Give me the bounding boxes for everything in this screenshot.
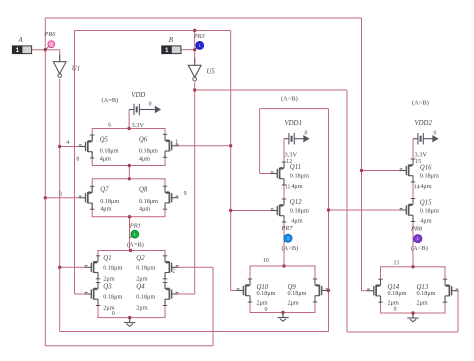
svg-text:1: 1 [50,43,52,47]
svg-text:8: 8 [76,157,79,163]
svg-text:4μm: 4μm [139,156,150,163]
svg-text:0.18μm: 0.18μm [139,148,158,155]
svg-text:0.18μm: 0.18μm [420,173,439,180]
svg-text:(A=B): (A=B) [102,97,119,104]
svg-text:10: 10 [263,258,269,264]
svg-text:U1: U1 [72,65,80,72]
svg-text:0.18μm: 0.18μm [288,290,307,297]
svg-text:PR1: PR1 [129,223,141,230]
svg-text:PR8: PR8 [410,226,423,233]
svg-text:Q2: Q2 [136,255,145,262]
svg-text:0.18μm: 0.18μm [420,208,439,215]
svg-text:(A<B): (A<B) [411,245,428,252]
svg-text:3.3V: 3.3V [285,152,298,159]
svg-text:0.18μm: 0.18μm [103,294,122,301]
svg-text:11: 11 [285,184,291,190]
svg-text:4μm: 4μm [100,205,111,212]
svg-text:0: 0 [305,131,308,137]
svg-text:14: 14 [414,184,420,190]
svg-text:VDD1: VDD1 [285,120,302,127]
svg-text:0.18μm: 0.18μm [257,290,276,297]
svg-text:Q15: Q15 [420,200,432,207]
svg-text:4μm: 4μm [291,218,302,225]
svg-text:Q8: Q8 [139,186,148,193]
svg-text:2μm: 2μm [417,300,428,307]
svg-text:4μm: 4μm [420,183,431,190]
svg-text:4μm: 4μm [139,205,150,212]
svg-text:0: 0 [394,307,397,313]
svg-text:1: 1 [287,237,289,241]
svg-text:13: 13 [394,261,400,267]
svg-text:0.18μm: 0.18μm [388,290,407,297]
svg-text:0.18μm: 0.18μm [103,264,122,271]
svg-text:2μm: 2μm [388,300,399,307]
svg-text:Q3: Q3 [103,283,112,290]
svg-text:Q7: Q7 [100,186,109,193]
svg-text:1: 1 [16,47,20,54]
svg-text:(A>B): (A>B) [282,245,299,252]
svg-text:3: 3 [59,191,62,197]
svg-text:0.18μm: 0.18μm [136,294,155,301]
svg-text:9: 9 [184,191,187,197]
svg-text:(A>B): (A>B) [281,96,298,103]
svg-text:U5: U5 [207,68,216,75]
svg-text:Q1: Q1 [103,255,111,262]
svg-text:2: 2 [172,269,175,275]
svg-text:3.3V: 3.3V [415,152,428,159]
svg-text:Q16: Q16 [420,165,432,172]
svg-text:2μm: 2μm [257,300,268,307]
svg-text:VDD: VDD [131,92,145,99]
svg-text:6: 6 [108,123,111,129]
svg-text:0: 0 [434,131,437,137]
svg-text:0.18μm: 0.18μm [100,198,119,205]
svg-text:2μm: 2μm [136,305,147,312]
svg-text:0.18μm: 0.18μm [139,198,158,205]
svg-text:VDD2: VDD2 [415,120,433,127]
svg-text:(A<B): (A<B) [412,100,429,107]
svg-text:2μm: 2μm [288,300,299,307]
svg-text:(A=B): (A=B) [127,241,144,248]
svg-text:1: 1 [417,237,419,241]
svg-text:0: 0 [265,307,268,313]
svg-text:2μm: 2μm [103,275,114,282]
svg-text:3.3V: 3.3V [132,122,145,129]
svg-text:12: 12 [286,159,292,165]
svg-text:A: A [18,37,24,44]
svg-text:Q6: Q6 [139,137,148,144]
svg-text:4μm: 4μm [100,156,111,163]
svg-text:4: 4 [66,140,69,146]
svg-text:B: B [169,37,173,44]
svg-text:4μm: 4μm [420,218,431,225]
svg-text:Q4: Q4 [136,283,145,290]
svg-text:PR7: PR7 [281,225,294,232]
svg-text:1: 1 [199,44,201,48]
svg-text:1: 1 [134,233,136,237]
svg-text:0.18μm: 0.18μm [290,208,309,215]
svg-text:1: 1 [165,47,169,54]
svg-text:0.18μm: 0.18μm [136,264,155,271]
svg-text:Q12: Q12 [290,199,302,206]
svg-text:0.18μm: 0.18μm [417,290,436,297]
svg-text:2μm: 2μm [136,275,147,282]
svg-text:1: 1 [175,140,178,146]
svg-text:0: 0 [149,102,152,108]
svg-text:15: 15 [415,159,421,165]
svg-text:PR6: PR6 [44,31,57,38]
svg-text:PR3: PR3 [193,33,205,40]
svg-text:Q5: Q5 [100,137,109,144]
svg-text:0.18μm: 0.18μm [290,173,309,180]
svg-text:0.18μm: 0.18μm [100,148,119,155]
svg-text:0: 0 [112,311,115,317]
svg-text:4μm: 4μm [291,183,302,190]
